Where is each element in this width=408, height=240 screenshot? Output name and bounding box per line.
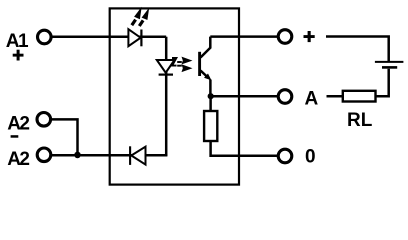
battery B1 long plate	[375, 61, 404, 63]
wire emitter node to A terminal	[211, 95, 279, 98]
phototransistor emitter	[201, 71, 208, 77]
light emission arrow 1	[132, 7, 142, 25]
wire resistor to 0 terminal	[211, 140, 279, 156]
wire A2 (lower) to diode to LED chain	[52, 154, 168, 157]
svg-text:A2: A2	[7, 149, 29, 170]
label + polarity A1	[13, 50, 24, 61]
wire battery to RL	[376, 69, 389, 97]
terminal A2 upper	[37, 113, 51, 127]
terminal A1	[38, 30, 52, 44]
terminal +	[278, 30, 292, 44]
svg-text:RL: RL	[347, 110, 373, 131]
optocoupler LED D2	[157, 60, 175, 73]
IC box	[110, 8, 239, 184]
svg-text:A1: A1	[6, 31, 29, 52]
wire emitter node to resistor	[209, 96, 212, 112]
wire A1 to optocoupler LED (horizontal)	[51, 36, 167, 39]
diode D3 reverse protection	[129, 146, 131, 165]
LED D1 indicator	[128, 29, 140, 46]
terminal A2 lower	[37, 148, 51, 162]
photon arrow 2	[177, 64, 192, 72]
svg-text:A: A	[305, 88, 319, 109]
battery B1 short plate	[382, 66, 397, 69]
wire A terminal to RL	[327, 95, 344, 98]
label + output	[304, 31, 315, 42]
junction emitter node	[208, 93, 214, 99]
wire collector to + terminal	[210, 35, 278, 38]
phototransistor Q1 base bar	[198, 52, 201, 76]
phototransistor collector	[201, 37, 211, 58]
light emission arrow 2	[139, 8, 149, 26]
terminal A	[278, 90, 292, 104]
wire A2 (upper) jumper	[52, 119, 78, 155]
photon arrow 1	[172, 57, 193, 66]
svg-text:A2: A2	[7, 113, 29, 134]
resistor RL	[343, 91, 376, 102]
wire + terminal to battery	[326, 37, 389, 62]
wire vertical LED chain	[165, 37, 168, 156]
terminal 0	[278, 149, 292, 163]
label - polarity A2	[11, 135, 19, 138]
svg-text:0: 0	[305, 146, 316, 167]
junction A2 node	[74, 152, 81, 159]
resistor R1 internal	[204, 111, 217, 141]
